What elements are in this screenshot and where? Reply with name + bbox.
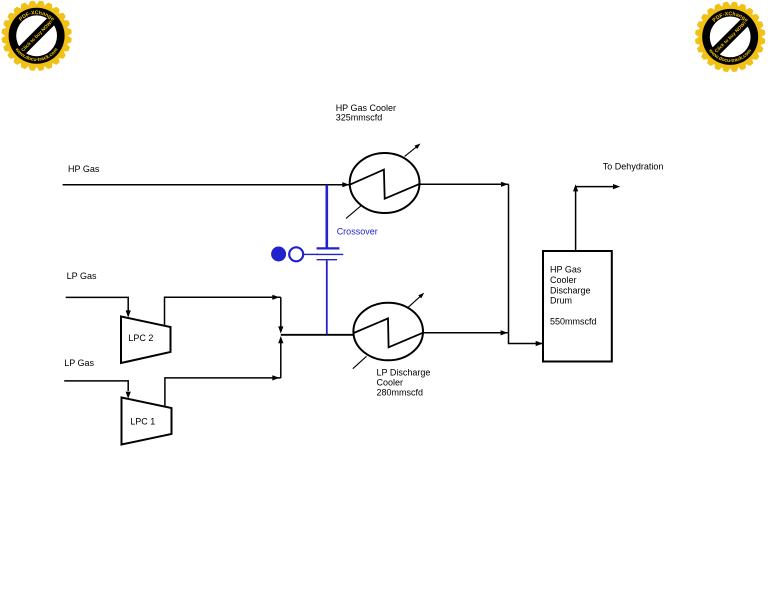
svg-text:LP Gas: LP Gas bbox=[67, 271, 97, 281]
crossover line (blue) lower segment bbox=[326, 260, 328, 334]
svg-text:To Dehydration: To Dehydration bbox=[603, 161, 664, 171]
vent arrow on LP cooler bbox=[408, 293, 424, 308]
crossover line (blue) upper segment bbox=[325, 185, 328, 249]
watermark badge L: PDF-XChange stamp bbox=[2, 1, 72, 71]
svg-text:Drum: Drum bbox=[550, 296, 572, 306]
svg-text:325mmscfd: 325mmscfd bbox=[336, 112, 383, 122]
wire: HP Gas feed line to HP cooler bbox=[63, 182, 350, 187]
label LP Discharge Cooler 280mmscfd bbox=[377, 368, 431, 398]
svg-text:Cooler: Cooler bbox=[377, 378, 404, 388]
heat exchanger: HP Gas Cooler bbox=[350, 153, 420, 213]
svg-text:HP Gas: HP Gas bbox=[68, 164, 100, 174]
wire: LP header junction to LP Discharge Cooler bbox=[281, 334, 354, 336]
svg-text:LP Gas: LP Gas bbox=[64, 358, 94, 368]
label HP Gas Cooler 325mmscfd bbox=[336, 103, 396, 122]
wire: drum overhead to dehydration bbox=[573, 184, 620, 251]
watermark badge R: PDF-XChange stamp bbox=[695, 2, 765, 72]
leader line from Crossover label to HP cooler bbox=[346, 205, 362, 219]
wire: LP cooler outlet to right header bbox=[423, 330, 508, 335]
svg-text:LP Discharge: LP Discharge bbox=[377, 368, 431, 378]
vent arrow on HP cooler bbox=[405, 144, 421, 157]
svg-text:LPC 1: LPC 1 bbox=[130, 416, 155, 426]
heat exchanger: LP Discharge Cooler bbox=[353, 303, 423, 361]
leader line from LP Discharge Cooler label bbox=[353, 356, 367, 368]
spectacle blind circles (blue) bbox=[271, 247, 318, 262]
svg-text:Discharge: Discharge bbox=[550, 285, 591, 295]
wire: LPC 2 discharge to junction bbox=[165, 295, 284, 334]
svg-text:550mmscfd: 550mmscfd bbox=[550, 316, 597, 326]
wire: right header down to drum bbox=[509, 184, 543, 346]
svg-text:Crossover: Crossover bbox=[337, 226, 378, 236]
svg-text:Cooler: Cooler bbox=[550, 275, 577, 285]
svg-text:LPC 2: LPC 2 bbox=[128, 333, 153, 343]
wire: lower LP Gas inlet to LPC 1 bbox=[64, 381, 131, 399]
compressor LPC 2 bbox=[121, 317, 171, 364]
vessel: HP Gas Cooler Discharge Drum bbox=[543, 251, 612, 362]
compressor LPC 1 bbox=[122, 398, 172, 445]
wire: LPC 1 discharge to junction bbox=[165, 336, 284, 407]
svg-text:HP Gas: HP Gas bbox=[550, 265, 582, 275]
spectacle blind symbol (blue) bbox=[317, 248, 344, 259]
wire: HP cooler outlet to right header bbox=[420, 182, 509, 187]
svg-text:280mmscfd: 280mmscfd bbox=[377, 388, 424, 398]
wire: upper LP Gas inlet to LPC 2 bbox=[66, 297, 131, 317]
